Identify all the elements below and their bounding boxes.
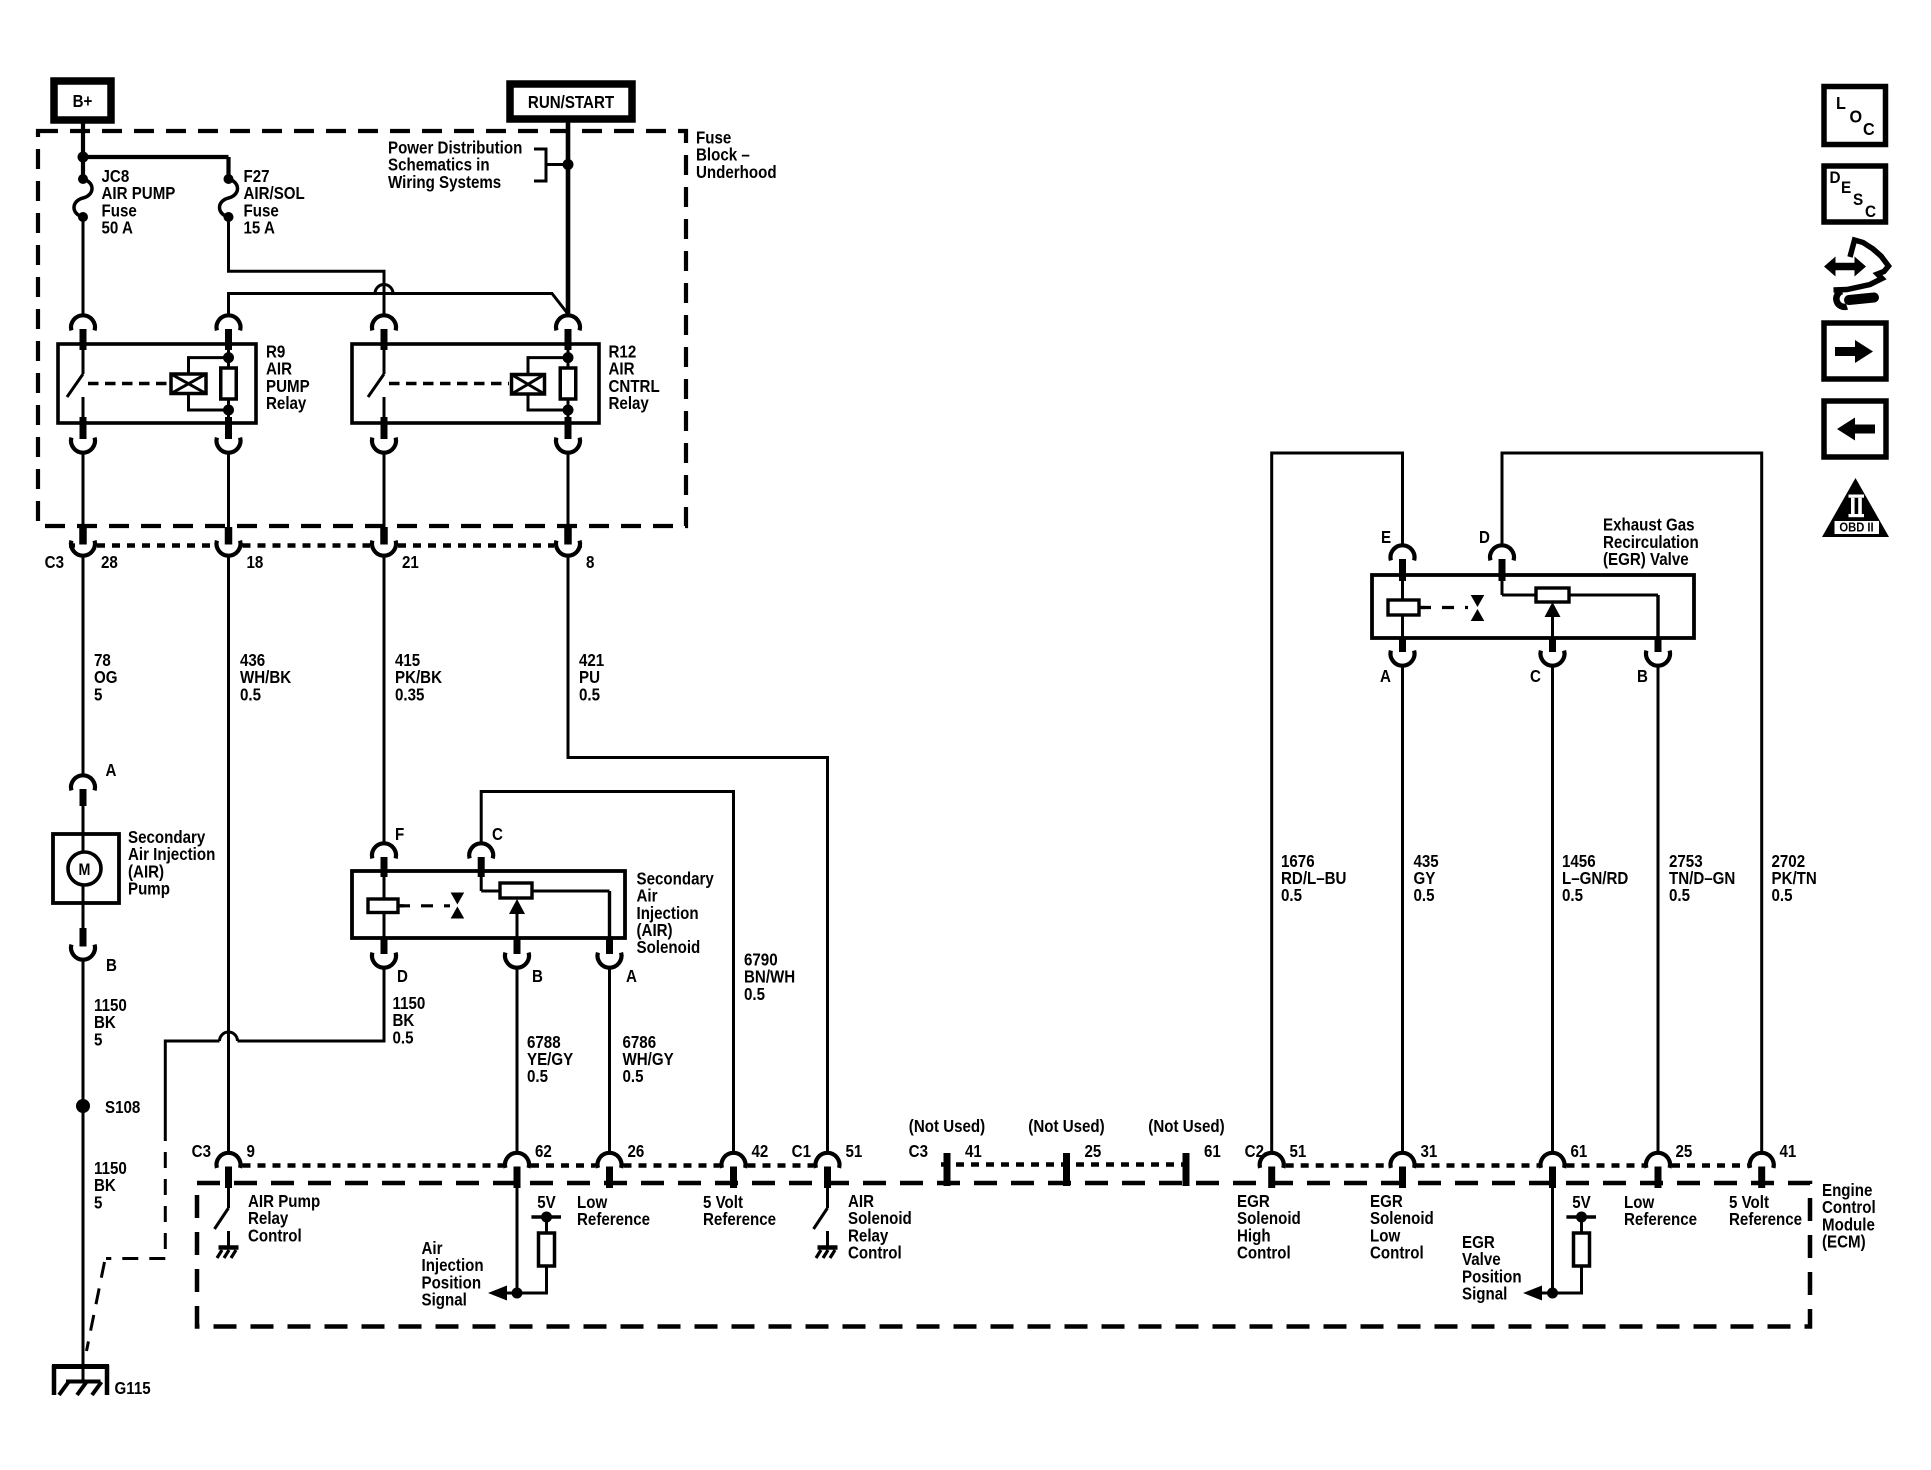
svg-text:21: 21 [402,552,419,573]
svg-text:C: C [1530,666,1541,687]
svg-text:51: 51 [1290,1141,1307,1162]
svg-text:Wiring Systems: Wiring Systems [388,172,501,193]
svg-text:0.5: 0.5 [1281,885,1302,906]
svg-text:S108: S108 [105,1097,140,1118]
svg-text:42: 42 [752,1141,769,1162]
svg-text:E: E [1841,178,1851,197]
module ECM dashed enclosure [197,1183,1810,1327]
svg-text:Control: Control [1370,1242,1424,1263]
svg-text:0.5: 0.5 [527,1066,548,1087]
svg-text:M: M [79,861,91,879]
node junction B+ branch [78,152,89,163]
motor AIR pump (M) [53,834,119,903]
wire RUN/START to R12 coil [566,119,571,316]
connector pin top R9 switch [71,315,95,330]
ground chassis at ECM pin 51 [826,1231,829,1246]
connector pin D of EGR valve [1490,545,1514,560]
connector pin bottom R9 switch (pin 28) [80,417,87,439]
svg-text:41: 41 [1780,1141,1797,1162]
svg-text:G115: G115 [115,1378,151,1399]
svg-text:Relay: Relay [266,393,307,414]
svg-text:0.5: 0.5 [1669,885,1690,906]
svg-text:31: 31 [1421,1141,1438,1162]
connector pin E of EGR valve [1391,545,1415,560]
wire 1456 L-GN/RD EGR C to ECM 61 [1551,666,1554,1152]
svg-text:Signal: Signal [1462,1283,1507,1304]
svg-text:A: A [1380,666,1391,687]
wire ECM pin 62 air injection position signal [516,1188,519,1293]
wire 415 PK/BK to AIR solenoid F [383,556,386,842]
svg-text:0.5: 0.5 [623,1066,644,1087]
switch AIR pump relay control at ECM pin 9 [227,1188,230,1208]
connector pin B of EGR valve [1655,638,1662,652]
svg-text:18: 18 [247,552,264,573]
coil-resistor parallel bracket R12 [528,358,568,410]
svg-text:28: 28 [101,552,118,573]
svg-text:5: 5 [94,1192,102,1213]
svg-text:OBD II: OBD II [1839,520,1873,535]
connector C3 pin at x=568 [567,453,570,527]
wire 435 GY EGR A to ECM 31 [1401,666,1404,1152]
svg-text:D: D [1479,527,1490,548]
svg-text:8: 8 [586,552,594,573]
svg-text:A: A [626,966,637,987]
arrow air injection position signal [505,1292,517,1295]
svg-text:B: B [532,966,543,987]
wire 1150 BK 5 to S108 [82,960,85,1365]
svg-text:25: 25 [1676,1141,1693,1162]
svg-text:(ECM): (ECM) [1822,1231,1866,1252]
connector pin bottom R12 switch (pin 21) [381,417,388,439]
wire dashed ground routing to G115 [164,1125,167,1253]
connector pin B of AIR pump [80,928,87,947]
wire 2753 TN/D-GN EGR B to ECM 25 [1657,666,1660,1152]
wire ECM pin 61 EGR valve position signal [1551,1188,1554,1293]
coil AIR solenoid [383,877,386,899]
svg-text:(EGR) Valve: (EGR) Valve [1603,549,1689,570]
svg-text:5V: 5V [537,1192,555,1213]
connector pin top R12 coil [556,315,580,330]
fuse F27 15A [224,174,234,184]
svg-text:26: 26 [628,1141,645,1162]
connector C3 pin at x=83 [82,453,85,527]
svg-text:5: 5 [94,1029,102,1050]
svg-text:Pump: Pump [128,878,170,899]
wire EGR E feed from ECM 51 C2 (1676 RD/L-BU) [1272,453,1403,1152]
wire F27 to R12 switch [229,217,385,316]
svg-text:Signal: Signal [422,1289,467,1310]
svg-text:Reference: Reference [577,1209,650,1230]
svg-text:Reference: Reference [1729,1209,1802,1230]
connector C3 pin at x=384 [383,453,386,527]
svg-text:C: C [492,824,503,845]
svg-text:A: A [106,760,117,781]
connector C3 pin at x=228.5 [227,453,230,527]
connector row ECM C3/C1 dotted line [243,1163,504,1167]
node RUN/START ignition feed box [510,84,632,119]
coil R9 (box with X) [171,374,206,394]
icon forward arrow box [1824,323,1886,379]
svg-text:Reference: Reference [1624,1209,1697,1230]
svg-text:50 A: 50 A [102,217,133,238]
svg-text:Solenoid: Solenoid [637,937,701,958]
connector pin top R12 switch [372,315,396,330]
hop over F27-R12 wire [375,285,393,294]
svg-text:O: O [1850,107,1863,127]
connector row C3 dotted line [69,543,75,547]
relay R12 AIR CNTRL Relay box [352,344,599,423]
icon LOC box [1824,87,1886,145]
svg-text:C3: C3 [909,1141,928,1162]
svg-text:Control: Control [248,1225,302,1246]
svg-text:(Not Used): (Not Used) [1028,1116,1104,1137]
svg-text:5V: 5V [1572,1192,1590,1213]
svg-text:C2: C2 [1245,1141,1264,1162]
svg-text:Control: Control [1237,1242,1291,1263]
wiper arrow EGR valve [1545,602,1561,617]
resistor R9 internal [227,350,230,368]
ground G115 symbol [52,1364,109,1369]
wire 6788 YE/GY solenoid B to ECM 62 [516,968,519,1152]
splice S108 [76,1099,90,1113]
wire branch to F27 [83,155,229,159]
svg-text:41: 41 [965,1141,982,1162]
node junction power distribution tap [563,159,574,170]
svg-text:62: 62 [535,1141,552,1162]
svg-text:Reference: Reference [703,1209,776,1230]
relay R9 AIR PUMP Relay box [58,344,256,423]
svg-text:RUN/START: RUN/START [528,92,614,113]
fuse JC8 50A [78,174,88,184]
node B+ battery feed box [54,81,111,120]
svg-text:Control: Control [848,1242,902,1263]
svg-text:0.5: 0.5 [1772,885,1793,906]
svg-text:C: C [1863,119,1875,139]
svg-text:61: 61 [1571,1141,1588,1162]
svg-text:0.5: 0.5 [1562,885,1583,906]
connector pin A of EGR valve [1399,638,1406,652]
wiper arrow AIR solenoid [509,899,525,914]
connector pin bottom R12 coil (pin 8) [565,417,572,439]
svg-text:D: D [1830,168,1841,187]
svg-text:0.5: 0.5 [744,984,765,1005]
switch R9 [82,350,85,374]
ground chassis at ECM pin 9 [227,1231,230,1246]
svg-text:(Not Used): (Not Used) [909,1116,985,1137]
svg-text:C: C [1865,202,1876,221]
switch R12 [383,350,386,374]
wire R9 coil feed from RUN/START [229,294,569,316]
fuse block dashed enclosure [38,131,686,526]
valve EGR (Exhaust Gas Recirculation) box [1372,575,1694,638]
svg-text:F: F [395,824,404,845]
connector pin B of AIR solenoid [514,938,521,954]
icon diagnostic connector with arrows and wrench [1834,240,1889,290]
svg-text:S: S [1853,190,1863,209]
connector pin A of AIR pump [71,775,95,790]
svg-text:L: L [1836,93,1846,113]
position sensor AIR solenoid [480,877,483,891]
connector pin A of AIR solenoid [606,938,613,954]
icon back arrow box [1824,401,1886,457]
actuator dashed link EGR [1419,606,1468,609]
wire 436 WH/BK to ECM pin 9 [227,556,230,1152]
svg-text:B+: B+ [73,91,93,112]
connector pin bottom R9 coil (pin 18) [225,417,232,439]
connector row not-used dotted line [941,1162,1192,1166]
svg-text:0.5: 0.5 [393,1027,414,1048]
wire 6786 WH/GY solenoid A to ECM 26 [608,968,611,1152]
5V pullup at ECM pin 62 [531,1215,561,1219]
reference bracket Power Distribution Schematics in Wiring Systems [534,149,568,181]
svg-text:0.5: 0.5 [240,684,261,705]
connector pin C of AIR solenoid [469,843,493,858]
connector pin F of AIR solenoid [372,843,396,858]
svg-text:0.35: 0.35 [395,684,424,705]
icon OBD II warning triangle [1822,478,1889,537]
5V pullup at ECM pin 61 [1566,1215,1596,1219]
wire 1150 BK 0.5 solenoid ground via S108 [238,968,385,1041]
svg-text:61: 61 [1204,1141,1221,1162]
position sensor EGR valve [1501,581,1504,595]
actuator dashed link R12 [389,382,509,385]
wire B+ feed down [81,120,85,179]
svg-text:25: 25 [1085,1141,1102,1162]
svg-text:B: B [106,955,117,976]
actuator dashed link R9 [88,382,169,385]
svg-text:Relay: Relay [609,393,650,414]
svg-text:Underhood: Underhood [696,162,777,183]
svg-text:C1: C1 [792,1141,811,1162]
svg-text:E: E [1381,527,1391,548]
connector pin top R9 coil [217,315,241,330]
wire JC8 to R9 switch [82,217,85,316]
valve symbol (bowtie) EGR [1471,595,1485,607]
switch AIR solenoid relay control at ECM pin 51 [826,1188,829,1208]
wire EGR D feed to ECM 41 (2702 PK/TN) [1502,453,1762,1152]
wire 421 PU to ECM pin 51 C1 [568,556,828,1152]
connector pin D of AIR solenoid [381,938,388,954]
svg-text:9: 9 [247,1141,255,1162]
svg-text:51: 51 [846,1141,863,1162]
connector row C2 dotted line [1286,1163,1389,1167]
svg-text:15 A: 15 A [244,217,275,238]
svg-text:C3: C3 [45,552,64,573]
solenoid AIR (Secondary Air Injection) box [352,871,625,938]
svg-text:B: B [1637,666,1648,687]
coil R12 (box with X) [512,375,545,395]
wire 78 OG 5 to AIR pump [82,556,85,775]
coil-resistor parallel bracket R9 [189,358,229,410]
coil EGR valve [1401,581,1404,600]
svg-text:C3: C3 [192,1141,211,1162]
wire AIR solenoid C to ECM pin 42 (6790 BN/WH) [481,792,733,1153]
svg-text:D: D [397,966,408,987]
actuator dashed link solenoid [398,904,450,907]
svg-text:0.5: 0.5 [1414,885,1435,906]
valve symbol (bowtie) AIR solenoid [451,893,465,905]
svg-text:0.5: 0.5 [579,684,600,705]
svg-text:(Not Used): (Not Used) [1148,1116,1224,1137]
resistor R12 internal [567,350,570,368]
icon DESC box [1824,166,1886,222]
connector pin C of EGR valve [1549,638,1556,652]
ECM pin arcs row [217,1153,241,1168]
svg-text:5: 5 [94,684,102,705]
